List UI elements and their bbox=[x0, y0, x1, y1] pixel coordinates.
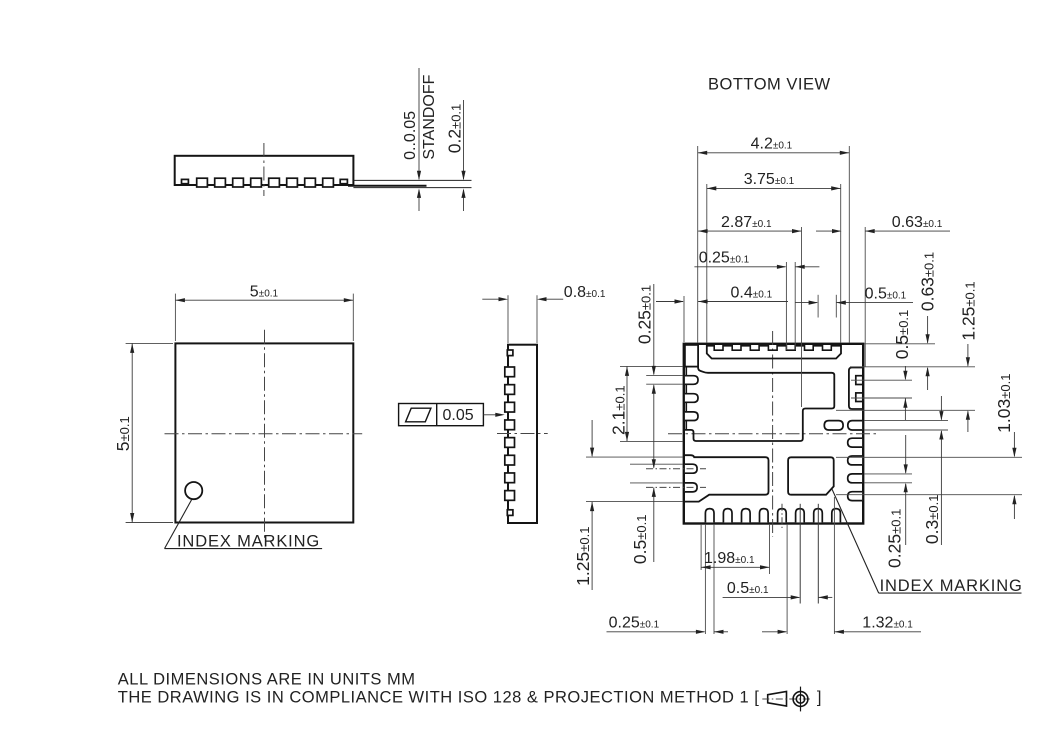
side view 2: package body bbox=[508, 345, 537, 523]
dimension 2.87±0.1 bbox=[698, 230, 801, 232]
side view 2: top end lead bbox=[507, 350, 513, 356]
side view: lower datum line bbox=[353, 187, 471, 189]
side view: seating plane line bbox=[353, 179, 471, 181]
bottom view: right corner pad with vias bbox=[849, 368, 862, 410]
dimension 4.2±0.1 bbox=[698, 152, 850, 154]
ext lines left of bottom view bbox=[620, 365, 683, 367]
svg-text:INDEX MARKING: INDEX MARKING bbox=[177, 533, 320, 551]
projection method symbol: target circles bbox=[793, 692, 808, 707]
dimension 1.03±0.1 right bbox=[1013, 432, 1015, 456]
dimension 0.5±0.1 bottom bbox=[723, 596, 800, 598]
bottom view: top pad bar with notches bbox=[707, 345, 841, 359]
dimension 0.25±0.1 top bbox=[694, 266, 785, 268]
bottom view: top-left corner pad bbox=[685, 345, 698, 367]
dimension 0.25±0.1 bottom left bbox=[607, 631, 705, 633]
bottom view: bottom pins row bbox=[705, 509, 714, 523]
top view: package outline bbox=[175, 343, 353, 522]
side view 2: leads column bbox=[505, 367, 515, 377]
ext lines above bottom view bbox=[697, 146, 699, 343]
svg-text:INDEX MARKING: INDEX MARKING bbox=[880, 577, 1023, 595]
top view: index marking leader bbox=[165, 499, 193, 549]
top view: index marking circle bbox=[185, 482, 202, 499]
svg-text:]: ] bbox=[817, 689, 822, 707]
dimension 5±0.1 vertical bbox=[126, 342, 173, 344]
dimension 0..0.05 STANDOFF bbox=[418, 68, 420, 179]
side view: right end lead bbox=[340, 179, 347, 183]
svg-text:ALL DIMENSIONS ARE IN UNITS MM: ALL DIMENSIONS ARE IN UNITS MM bbox=[118, 671, 416, 689]
side view: lead bottom line (thick) bbox=[348, 185, 427, 187]
dimension 1.98±0.1 bbox=[701, 566, 769, 568]
svg-text:THE DRAWING IS IN COMPLIANCE W: THE DRAWING IS IN COMPLIANCE WITH ISO 12… bbox=[118, 689, 760, 707]
bottom view: lower-right pad with index chamfer bbox=[788, 457, 834, 494]
dimension 2.1±0.1 left bbox=[626, 366, 628, 441]
bottom view: vertical centerline bbox=[772, 331, 774, 537]
bottom view: lower-left pad bbox=[685, 455, 769, 501]
dimension 1.32±0.1 bottom bbox=[762, 631, 786, 633]
dimension 0.2±0.1 bbox=[463, 100, 465, 179]
dimension 0.63±0.1 top right bbox=[816, 230, 840, 232]
side view 2: horizontal centerline bbox=[497, 433, 548, 435]
bottom view: thermal pad (top) bbox=[685, 367, 834, 441]
dimension 0.4±0.1 bbox=[656, 301, 683, 303]
flatness leader arrow bbox=[483, 414, 495, 416]
flatness callout box bbox=[399, 404, 484, 426]
dimension 0.8±0.1 bbox=[507, 295, 509, 343]
side view: leads row bbox=[197, 178, 208, 187]
top view: vertical centerline bbox=[264, 330, 266, 540]
dimension 0.5±0.1 left bbox=[652, 459, 656, 469]
projection method symbol: centerline bbox=[762, 698, 811, 700]
svg-text:STANDOFF: STANDOFF bbox=[421, 74, 438, 159]
bottom view: left pin centerlines bbox=[646, 468, 706, 470]
top view: horizontal centerline bbox=[165, 433, 363, 435]
side view: vertical centerline bbox=[263, 143, 265, 196]
flatness parallelogram symbol bbox=[406, 408, 431, 422]
side view: left end lead bbox=[182, 179, 189, 183]
dimension 0.63±0.1 right bbox=[927, 316, 929, 343]
projection method symbol: cone bbox=[768, 691, 787, 706]
side view 2: bottom end lead bbox=[507, 510, 513, 516]
svg-text:0.05: 0.05 bbox=[443, 407, 474, 424]
projection method symbol: vertical axis bbox=[800, 687, 802, 712]
dimension 0.25±0.1 left bbox=[653, 284, 655, 374]
dimension 1.25±0.1 right bbox=[967, 344, 969, 366]
bottom view: horizontal centerline bbox=[668, 433, 878, 435]
svg-text:0..0.05: 0..0.05 bbox=[402, 111, 419, 160]
bottom view: left pins group 2 bbox=[685, 464, 697, 473]
dimension 5±0.1 horizontal bbox=[174, 294, 176, 341]
index marking leader right bbox=[832, 489, 879, 593]
side view: package body bbox=[175, 156, 354, 185]
bottom view: right small pads pair bbox=[824, 421, 843, 430]
ext lines below bottom view bbox=[700, 524, 702, 570]
bottom view: right pins column bbox=[848, 438, 862, 447]
dimension 0.5±0.1 right bbox=[904, 366, 906, 379]
bottom view: thermal pad left boundary bbox=[685, 367, 687, 430]
ext lines right of bottom view bbox=[864, 343, 935, 345]
dimension 0.3±0.1 right bbox=[940, 396, 942, 420]
dimension 3.75±0.1 bbox=[707, 187, 841, 189]
dimension 0.25±0.1 right bottom bbox=[905, 435, 907, 473]
svg-text:BOTTOM VIEW: BOTTOM VIEW bbox=[708, 75, 831, 93]
bottom view: left pins group 1 bbox=[685, 376, 698, 385]
dimension 1.25±0.1 left bbox=[591, 420, 593, 456]
bottom view: package outline bbox=[684, 344, 863, 524]
dimension 0.5±0.1 top right bbox=[795, 302, 817, 304]
